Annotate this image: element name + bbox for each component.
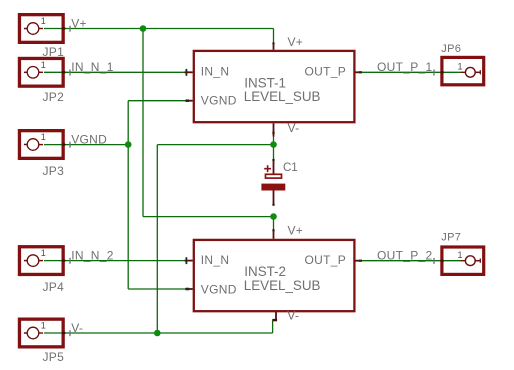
C1 positive plate (outline): [266, 174, 282, 178]
JP3 pin 1 pad circle: [27, 139, 39, 151]
C1 negative plate (filled): [261, 184, 285, 191]
connector JP5: [19, 319, 64, 364]
net OUT_P_2: [361, 260, 461, 262]
svg-text:JP6: JP6: [441, 43, 461, 55]
wire OUT_P_1 from INST-1 to JP6: [361, 71, 461, 73]
junction dot V+ at JP1 branch: [140, 25, 147, 32]
JP7 pin 1 pad circle: [465, 256, 475, 266]
wire VGND to INST-2 VGND pin: [128, 288, 185, 290]
pin V- stub: [273, 123, 275, 136]
label net OUT_P_1: [377, 60, 434, 75]
pin V+ stub: [273, 43, 275, 50]
svg-text:VGND: VGND: [71, 132, 107, 146]
sub-circuit block U1 INST-1: [185, 35, 363, 137]
svg-text:IN_N: IN_N: [201, 253, 230, 267]
junction dot VGND: [125, 141, 132, 148]
C1 top lead: [273, 160, 275, 174]
JP6 pin 1 wire stub: [475, 71, 481, 73]
JP3 box outline: [19, 131, 63, 159]
wire V- down to cap top lead: [273, 145, 275, 160]
svg-text:IN_N: IN_N: [201, 65, 230, 79]
svg-text:OUT_P_1: OUT_P_1: [377, 60, 432, 74]
wire VGND vertical rail at x=128: [127, 101, 129, 289]
JP5 box outline: [19, 319, 63, 347]
JP6 pin 1 lead: [461, 71, 466, 73]
JP6 pin tip tick: [479, 70, 481, 74]
label net V-: [70, 321, 83, 336]
JP7 pin tip tick: [479, 259, 481, 263]
label net OUT_P_2: [377, 249, 434, 264]
wire V- from JP5: [44, 332, 273, 334]
svg-text:IN_N_2: IN_N_2: [71, 248, 114, 262]
pin IN_N connection cross: [185, 69, 187, 76]
JP7 box outline: [442, 247, 484, 274]
svg-text:1: 1: [41, 16, 46, 26]
JP2 pin 1 lead: [24, 71, 28, 73]
svg-text:OUT_P: OUT_P: [304, 253, 346, 267]
connector JP4: [19, 247, 64, 294]
svg-text:VGND: VGND: [201, 282, 237, 296]
connector JP6: [441, 43, 483, 85]
svg-text:V-: V-: [287, 309, 299, 323]
pin VGND stub: [185, 100, 192, 102]
JP4 pin 1 lead: [24, 260, 28, 262]
JP7 pin 1 lead: [461, 260, 466, 262]
capacitor C1: [261, 160, 297, 205]
sub-circuit block U2 INST-2: [185, 224, 363, 323]
label net IN_N_2: [70, 248, 114, 263]
svg-text:1: 1: [41, 248, 46, 258]
svg-text:JP3: JP3: [43, 164, 65, 178]
svg-text:OUT_P_2: OUT_P_2: [377, 249, 432, 263]
JP7 pin 1 wire stub: [475, 260, 481, 262]
wire V+ vertical to INST-2 V+ pin: [273, 217, 275, 231]
net OUT_P_1: [361, 71, 461, 73]
JP6 box outline: [442, 57, 484, 84]
JP5 pin 1 pad circle: [27, 327, 39, 339]
JP3 pin 1 wire stub: [39, 144, 43, 146]
JP4 box outline: [19, 247, 63, 275]
junction dot V- at cap top: [270, 141, 277, 148]
net VGND: [44, 101, 186, 289]
svg-text:LEVEL_SUB: LEVEL_SUB: [244, 278, 321, 293]
label net V+: [70, 16, 87, 31]
connector JP2: [19, 58, 64, 104]
JP6 pin 1 pad circle: [465, 67, 475, 77]
JP2 pin 1 pad circle: [27, 67, 39, 79]
junction dot V- at JP5 branch: [154, 330, 161, 337]
C1 bottom lead: [273, 191, 275, 205]
net IN_N_1: [44, 71, 185, 73]
svg-text:JP2: JP2: [43, 90, 65, 104]
pin IN_N stub: [185, 260, 193, 262]
svg-text:IN_N_1: IN_N_1: [71, 60, 114, 74]
pin VGND stub: [185, 288, 192, 290]
wire V- up to INST-2 V- pin: [272, 321, 274, 333]
svg-text:1: 1: [458, 250, 463, 260]
connector JP1: [19, 15, 64, 59]
svg-text:JP4: JP4: [43, 280, 65, 294]
wire IN_N_1 from JP2 to INST-1 IN_N pin: [44, 71, 185, 73]
svg-text:LEVEL_SUB: LEVEL_SUB: [244, 89, 321, 104]
wire VGND from JP3 to junction: [44, 144, 128, 146]
net V-: [44, 136, 274, 333]
C1 plus sign: [264, 165, 271, 172]
svg-text:VGND: VGND: [201, 94, 237, 108]
net IN_N_2: [44, 260, 185, 262]
wire V- vertical rail at x=156.3: [156, 145, 158, 333]
svg-text:JP5: JP5: [43, 350, 65, 364]
svg-text:JP7: JP7: [441, 231, 461, 243]
JP5 pin 1 lead: [24, 332, 28, 334]
wire V- horizontal to cap top junction: [157, 144, 273, 146]
connector JP7: [441, 231, 483, 274]
wire V- up to INST-1 V- pin: [273, 136, 275, 145]
junction dot V+ at cap bottom: [270, 213, 277, 220]
connector JP3: [19, 131, 64, 178]
wire-border crossing blends: [62, 27, 444, 334]
wire V+ horizontal to cap bottom junction: [143, 216, 274, 218]
JP5 pin 1 wire stub: [39, 332, 43, 334]
pin IN_N connection cross: [185, 257, 187, 264]
pin V- stub: [275, 312, 277, 321]
svg-text:V-: V-: [71, 321, 83, 335]
svg-text:V+: V+: [71, 16, 87, 30]
JP2 box outline: [19, 58, 63, 86]
pin OUT_P stub: [356, 71, 362, 73]
pin V+ stub: [273, 230, 275, 239]
JP3 pin 1 lead: [24, 144, 28, 146]
JP1 box outline: [19, 15, 63, 43]
label net IN_N_1: [70, 60, 114, 75]
svg-text:C1: C1: [283, 162, 298, 174]
svg-text:OUT_P: OUT_P: [304, 65, 346, 79]
JP4 pin 1 pad circle: [27, 255, 39, 267]
net V+: [44, 29, 274, 231]
label net VGND: [70, 132, 107, 147]
wire V+ horizontal from JP1 to INST-1 V+ corner: [44, 28, 274, 30]
pin IN_N stub: [185, 71, 193, 73]
svg-text:V+: V+: [288, 224, 304, 238]
JP1 pin 1 pad circle: [27, 23, 39, 35]
JP4 pin 1 wire stub: [39, 260, 43, 262]
pin OUT_P stub: [356, 260, 362, 262]
JP1 pin 1 lead: [24, 28, 28, 30]
wire IN_N_2 from JP4 to INST-2 IN_N pin: [44, 260, 185, 262]
JP1 pin 1 wire stub: [39, 28, 43, 30]
svg-text:1: 1: [458, 61, 463, 71]
svg-text:1: 1: [41, 321, 46, 331]
svg-text:V-: V-: [288, 121, 300, 135]
wire V+ rail vertical at x=143: [142, 29, 144, 217]
wire V+ vertical drop to INST-1 V+ pin: [273, 29, 275, 44]
svg-text:V+: V+: [288, 35, 304, 49]
svg-text:1: 1: [41, 132, 46, 142]
JP2 pin 1 wire stub: [39, 71, 43, 73]
svg-text:1: 1: [41, 60, 46, 70]
wire VGND to INST-1 VGND pin: [128, 100, 185, 102]
wire OUT_P_2 from INST-2 to JP7: [361, 260, 461, 262]
